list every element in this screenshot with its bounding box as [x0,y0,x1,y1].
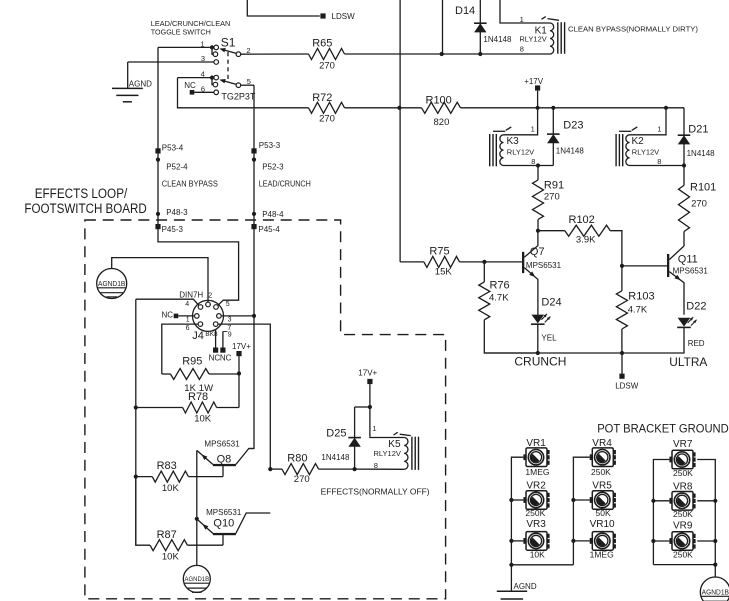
transistor Q8 [197,440,254,477]
wire pot rail right-right [697,460,717,578]
node P45-3 [155,224,183,234]
svg-text:R102: R102 [569,214,595,226]
ground AGND pots [497,565,537,599]
wire AGND1B to J4 pin2 [112,258,208,303]
ground AGND1B pots [700,577,729,601]
wire 17V+ to R78 [238,374,240,408]
svg-text:NC: NC [162,310,174,319]
svg-text:250K: 250K [673,468,693,478]
svg-text:RLY12V: RLY12V [632,148,659,157]
connector J4 DIN7H [162,291,232,363]
wire pot rail right-left [651,460,669,565]
junction [478,52,482,56]
svg-text:50K: 50K [596,508,611,518]
diode D25 [321,407,361,469]
power 17V+ K5 [358,368,377,407]
node Q11 base [620,264,624,268]
wire K5 pin1 [355,405,405,438]
diode D14 [455,0,512,54]
svg-text:FOOTSWITCH BOARD: FOOTSWITCH BOARD [24,201,147,216]
svg-text:Q11: Q11 [678,253,698,265]
svg-text:RLY12V: RLY12V [374,449,401,458]
svg-text:1N4148: 1N4148 [321,453,350,462]
svg-text:3: 3 [228,317,232,324]
toggle switch S1 [128,36,256,102]
svg-text:10K: 10K [162,551,180,562]
svg-text:1: 1 [372,424,376,433]
svg-text:17V+: 17V+ [232,342,251,351]
wire R65 to K1 pin8 [345,53,551,55]
resistor R80 [270,452,354,484]
svg-text:270: 270 [319,60,335,71]
diode D21 [678,108,715,166]
potentiometer VR8 [669,481,695,519]
svg-text:4: 4 [185,301,189,308]
label clean bypass relay [568,25,698,34]
node P53-4 [155,144,183,154]
svg-text:K2: K2 [632,136,645,147]
node R80 [268,467,272,471]
relay K3 [490,108,554,167]
svg-text:270: 270 [691,199,707,210]
node P48-3 [156,208,188,217]
node P48-4 [252,210,284,219]
svg-text:P48-4: P48-4 [262,210,284,219]
junction [682,163,686,167]
svg-text:AGND: AGND [514,582,537,591]
svg-text:Q8: Q8 [217,453,232,465]
wire pot rail mid [571,457,589,565]
svg-text:1: 1 [657,125,661,134]
svg-text:RLY12V: RLY12V [507,148,534,157]
svg-text:250K: 250K [525,508,545,518]
svg-text:MPS6531: MPS6531 [673,267,709,276]
svg-text:17V+: 17V+ [358,368,377,377]
svg-text:R95: R95 [182,356,202,368]
label pot bracket grounds [597,422,729,436]
svg-text:AGND1B: AGND1B [98,281,126,288]
node P52-4 [156,158,188,172]
svg-text:EFFECTS LOOP/: EFFECTS LOOP/ [35,186,128,201]
svg-text:R72: R72 [312,92,332,104]
junction [440,52,444,56]
net label CLEAN BYPASS [162,179,218,188]
net stub LDSW [320,12,355,21]
svg-text:1: 1 [186,317,190,324]
svg-text:R65: R65 [312,38,332,50]
svg-text:15K: 15K [435,267,453,278]
svg-text:3.9K: 3.9K [576,235,596,246]
node Q7 base [482,260,486,264]
resistor R100 [422,95,461,129]
svg-text:R78: R78 [188,391,208,403]
node P53-3 [251,141,280,153]
svg-text:+17V: +17V [524,77,544,86]
svg-text:VR1: VR1 [526,438,546,449]
potentiometer VR10 [590,519,616,559]
svg-text:CLEAN BYPASS(NORMALLY DIRTY): CLEAN BYPASS(NORMALLY DIRTY) [568,25,698,34]
resistor R102 [538,214,622,266]
svg-text:NC: NC [184,81,196,90]
svg-text:J4: J4 [192,330,204,342]
wire clean bypass column [158,47,239,305]
transistor Q11 [622,246,708,315]
resistor R95 [162,356,239,394]
svg-text:P52-4: P52-4 [166,163,188,172]
resistor R75 [400,246,484,278]
svg-text:AGND1B: AGND1B [702,589,729,596]
svg-text:RLY12V: RLY12V [519,34,546,43]
svg-text:8: 8 [531,157,535,166]
svg-text:P52-3: P52-3 [262,163,284,172]
wire J4 pin3 [221,314,256,318]
svg-text:P48-3: P48-3 [166,208,188,217]
footswitch board boundary [85,220,446,599]
ground AGND1B footswitch [183,565,210,592]
wire R72 to R100 [345,106,422,110]
svg-text:NC: NC [220,353,232,362]
svg-text:MPS6531: MPS6531 [204,440,240,449]
wire indicator rail [484,351,624,355]
svg-text:250K: 250K [591,467,611,477]
resistor R65 [309,38,345,72]
wire lead crunch column [249,85,254,448]
svg-text:VR2: VR2 [526,481,546,492]
svg-text:LDSW: LDSW [615,381,639,390]
svg-text:250K: 250K [673,550,693,560]
junction [134,475,138,479]
svg-text:AGND: AGND [129,80,152,89]
label CRUNCH [514,354,566,368]
svg-text:EFFECTS(NORMALLY OFF): EFFECTS(NORMALLY OFF) [321,488,430,497]
svg-text:1N4148: 1N4148 [556,146,585,155]
svg-text:P45-4: P45-4 [258,225,280,234]
LED D24 [531,297,562,353]
svg-text:D24: D24 [541,297,561,309]
svg-text:1MEG: 1MEG [525,467,549,477]
transistor Q10 [198,508,270,545]
svg-text:R101: R101 [690,181,716,193]
svg-text:TG2P3T: TG2P3T [221,92,256,102]
svg-text:2: 2 [208,293,212,300]
svg-text:AGND1B: AGND1B [185,576,210,583]
label toggle switch [151,19,231,36]
wire from top [442,0,444,54]
label ULTRA [669,355,707,369]
resistor R103 [616,266,654,353]
wire pin4 loop [178,78,309,108]
svg-text:VR7: VR7 [673,439,693,450]
wire pin2 to R65 [241,53,309,55]
resistor R83 [136,460,223,494]
resistor R91 [533,166,565,231]
ground AGND [112,62,152,102]
svg-text:Q7: Q7 [530,246,545,258]
svg-text:1N4148: 1N4148 [687,149,716,158]
power +17V [524,77,544,108]
svg-text:8: 8 [657,157,661,166]
svg-text:CLEAN BYPASS: CLEAN BYPASS [162,179,218,188]
wire +17V rail [461,106,685,110]
wire base rail [135,299,137,545]
svg-text:D23: D23 [563,119,583,131]
svg-text:270: 270 [294,474,310,485]
wire pot ground bus [509,563,573,567]
svg-text:270: 270 [319,114,335,125]
ground AGND1B [97,269,127,299]
svg-text:VR10: VR10 [590,519,615,530]
svg-text:YEL: YEL [541,333,557,342]
LED D22 [622,301,706,353]
junction [237,371,241,375]
node P52-3 [252,158,284,172]
svg-text:270: 270 [544,192,560,203]
svg-text:D21: D21 [688,124,708,136]
svg-text:R83: R83 [157,460,177,472]
svg-text:5: 5 [226,301,230,308]
svg-text:RED: RED [688,339,705,348]
svg-text:POT BRACKET GROUNDS: POT BRACKET GROUNDS [597,422,729,436]
junction [134,405,138,409]
svg-text:1: 1 [520,15,524,24]
node P45-4 [251,224,280,234]
resistor R78 [136,391,239,425]
svg-text:D14: D14 [455,5,475,17]
resistor R72 [309,92,345,124]
potentiometer VR3 [523,519,549,559]
svg-text:LDSW: LDSW [332,12,356,21]
net stub LDSW bottom [615,353,639,390]
svg-text:P45-3: P45-3 [162,225,184,234]
svg-text:NC: NC [209,353,221,362]
potentiometer VR7 [669,439,695,478]
potentiometer VR2 [523,481,549,518]
svg-text:1: 1 [200,40,204,49]
wire emitter rail [195,450,199,565]
relay K2 [616,108,684,167]
svg-text:LEAD/CRUNCH: LEAD/CRUNCH [259,179,311,188]
svg-text:4: 4 [201,70,205,79]
potentiometer VR1 [523,438,549,477]
svg-text:VR5: VR5 [592,481,612,492]
relay K1 [500,0,565,54]
svg-text:P53-3: P53-3 [259,141,281,150]
svg-text:R100: R100 [426,95,452,107]
svg-text:DIN7H: DIN7H [179,291,203,300]
wire pot rail left [509,457,523,565]
svg-text:VR8: VR8 [673,481,693,492]
resistor R76 [479,262,538,353]
wire to LDSW [247,0,319,16]
svg-text:ULTRA: ULTRA [669,355,707,369]
svg-text:R87: R87 [157,529,177,541]
svg-text:10K: 10K [194,414,212,425]
svg-text:R91: R91 [544,180,564,192]
svg-text:820: 820 [434,117,450,128]
svg-text:P53-4: P53-4 [162,144,184,153]
label effects loop board [24,186,147,216]
svg-text:8: 8 [520,44,524,53]
potentiometer VR4 [590,438,616,477]
svg-text:Q10: Q10 [213,517,234,529]
transistor Q7 [484,231,561,315]
wire from top to R75 [399,0,401,262]
svg-text:D22: D22 [686,301,706,313]
resistor R101 [679,166,717,247]
svg-text:R75: R75 [429,246,449,258]
svg-text:D25: D25 [326,428,346,440]
svg-text:10K: 10K [162,483,180,494]
wire J4 pin6 [162,324,198,374]
svg-text:VR4: VR4 [592,438,612,449]
svg-text:4.7K: 4.7K [628,305,648,316]
svg-text:3: 3 [201,54,205,63]
svg-text:1N4148: 1N4148 [483,35,512,44]
svg-text:MPS6531: MPS6531 [206,508,242,517]
potentiometer VR5 [590,481,616,518]
resistor R87 [136,477,223,563]
svg-text:10K: 10K [530,549,545,559]
wire pot ground bus right [653,563,717,567]
svg-text:9: 9 [228,332,232,339]
junction [536,229,540,233]
svg-text:R76: R76 [490,279,510,291]
label effects normally off [321,488,430,497]
potentiometer VR9 [669,520,695,559]
svg-text:R103: R103 [628,291,654,303]
svg-text:TOGGLE SWITCH: TOGGLE SWITCH [151,28,211,37]
diode D23 [547,108,584,166]
svg-text:1MEG: 1MEG [590,549,614,559]
net label LEAD/CRUNCH [259,179,311,188]
svg-text:6: 6 [201,84,205,93]
svg-text:MPS6531: MPS6531 [526,261,562,270]
svg-text:CRUNCH: CRUNCH [514,354,566,368]
power 17V+ J4 [232,342,251,374]
svg-text:R80: R80 [287,452,307,464]
svg-text:VR3: VR3 [526,519,546,530]
svg-text:4.7K: 4.7K [489,292,509,303]
relay K5 [355,424,419,470]
svg-text:250K: 250K [673,509,693,519]
svg-text:K3: K3 [507,136,520,147]
junction [536,163,540,167]
svg-text:S1: S1 [221,36,236,50]
svg-text:6: 6 [186,325,190,332]
junction [353,467,357,471]
svg-text:VR9: VR9 [673,520,693,531]
svg-text:1: 1 [531,125,535,134]
wire J4 pin7 [218,324,270,469]
wire J4 pin4 [136,299,199,305]
